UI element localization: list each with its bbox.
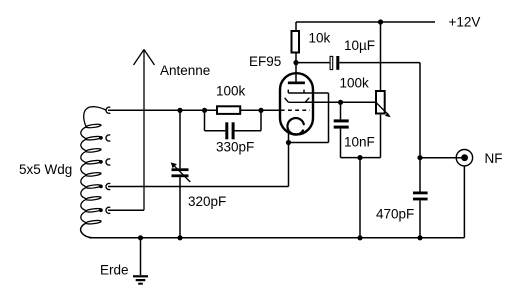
svg-text:10µF: 10µF: [344, 38, 375, 53]
inductor L1 left arc 3: [81, 151, 86, 163]
svg-text:330pF: 330pF: [216, 140, 254, 155]
node coil tap2: [99, 136, 103, 140]
svg-text:EF95: EF95: [249, 54, 281, 69]
node tank 320pF junction: [177, 108, 182, 113]
connector J1 NF jack: [456, 150, 472, 166]
coil tap2 hook: [106, 135, 110, 141]
wire +12V rail: [296, 22, 435, 30]
label NF: [485, 151, 503, 166]
coil tap4 hook: [106, 183, 110, 189]
wire NF sleeve to ground bus: [420, 166, 464, 238]
label 100k grid leak: [216, 84, 246, 99]
potentiometer P1 100k: [376, 91, 391, 117]
svg-text:NF: NF: [485, 151, 503, 166]
wire pot bottom lead: [380, 115, 382, 158]
svg-text:5x5 Wdg: 5x5 Wdg: [19, 162, 72, 177]
node cathode junction: [286, 140, 291, 145]
capacitor C3 10nF: [334, 119, 349, 128]
wire antenna to coil tap5: [108, 209, 144, 211]
inductor L1 winding 9: [86, 220, 101, 225]
inductor L1 top entry arc: [84, 107, 106, 127]
resistor R1 10k: [292, 31, 300, 53]
inductor L1 winding 7: [86, 196, 101, 201]
label 330pF: [216, 140, 254, 155]
svg-text:Antenne: Antenne: [160, 63, 210, 78]
antenna symbol: [134, 50, 155, 211]
capacitor C5 320pF variable: [171, 162, 191, 182]
coil tap5 hook: [106, 207, 110, 213]
wire 10nF bottom to pot bottom: [341, 157, 381, 159]
node coil tap3: [99, 160, 103, 164]
label 10uF: [344, 38, 375, 53]
label EF95: [249, 54, 281, 69]
inductor L1 left arc 4: [81, 163, 86, 175]
resistor R2 100k grid leak: [217, 106, 240, 114]
capacitor C4 470pF: [413, 192, 428, 201]
node 10nF-ground junction: [357, 155, 362, 160]
node rail-pot junction: [378, 19, 383, 24]
inductor L1 left arc 5: [81, 175, 86, 187]
label Erde: [100, 263, 129, 278]
svg-text:320pF: 320pF: [188, 194, 226, 209]
capacitor C1 10uF electrolytic: [330, 56, 339, 70]
inductor L1 winding 2 tap2: [86, 136, 101, 141]
coil tap3 hook: [106, 159, 110, 165]
node NF junction: [417, 155, 422, 160]
wire 320pF top lead: [179, 110, 181, 168]
inductor L1 winding 5: [86, 172, 101, 177]
ground symbol Erde: [133, 275, 148, 285]
wire 470pF bottom lead: [419, 200, 421, 237]
wire pot top lead: [380, 22, 382, 90]
inductor L1 left arc 1: [81, 127, 86, 139]
wire tap4 to cathode: [108, 143, 289, 187]
node grid RC right junction: [258, 108, 263, 113]
wire junction down to ground bus: [359, 158, 361, 238]
wire g3 to pot wiper line: [305, 101, 376, 103]
wire anode to 10uF: [296, 62, 330, 64]
node grid RC left junction: [202, 108, 207, 113]
label 100k pot: [340, 75, 370, 90]
label 10nF: [344, 135, 375, 150]
inductor L1 left arc 7: [81, 199, 86, 211]
wire 320pF bottom lead: [179, 177, 181, 238]
wire cathode lead: [288, 131, 290, 143]
wire g2 to cathode loop: [289, 93, 329, 143]
node ground bus 470pF: [417, 235, 422, 240]
inductor L1 left arc 6: [81, 187, 86, 199]
tube anode plate bar: [288, 82, 305, 85]
wire ground bus: [89, 237, 420, 239]
node ground bus erde: [138, 235, 143, 240]
wire right column top: [419, 63, 421, 192]
wire erde lead: [140, 238, 142, 275]
wire NF output: [420, 157, 463, 159]
inductor L1 bottom exit arc: [81, 223, 93, 238]
svg-text:+12V: +12V: [449, 14, 481, 29]
inductor L1 left arc 8: [81, 211, 86, 223]
inductor L1 winding 4 tap3: [86, 160, 101, 165]
wire 10uF to right column: [339, 62, 420, 64]
tube control grid g1 dashed: [281, 109, 310, 111]
node coil tap5: [99, 208, 103, 212]
capacitor C2 330pF: [225, 122, 234, 139]
node anode junction: [293, 60, 298, 65]
wire top tank: [108, 109, 280, 111]
svg-text:100k: 100k: [340, 75, 370, 90]
svg-text:10nF: 10nF: [344, 135, 375, 150]
inductor L1 winding 3: [86, 148, 101, 153]
svg-text:10k: 10k: [309, 31, 331, 46]
tube cathode: [287, 118, 303, 135]
svg-text:100k: 100k: [216, 84, 246, 99]
inductor L1 winding 6 tap4: [86, 184, 101, 189]
label Antenne: [160, 63, 210, 78]
node ground bus 320pF: [177, 235, 182, 240]
svg-text:470pF: 470pF: [376, 207, 414, 222]
wire anode lead: [295, 63, 297, 82]
label 10k: [309, 31, 331, 46]
wire 10nF top lead: [340, 102, 342, 119]
label 5x5 Wdg: [19, 162, 72, 177]
wire 10k bottom to anode node: [295, 53, 297, 63]
label +12V: [449, 14, 481, 29]
tube suppressor grid g3: [285, 98, 310, 103]
svg-text:Erde: Erde: [100, 263, 129, 278]
tube U1 EF95 envelope: [280, 73, 313, 134]
wire 330pF branch: [205, 110, 262, 130]
node ground bus 10nF branch: [357, 235, 362, 240]
label 470pF: [376, 207, 414, 222]
inductor L1 top terminal hook: [106, 107, 110, 113]
label 320pF: [188, 194, 226, 209]
tube screen grid g2: [288, 90, 328, 93]
inductor L1 winding 8 tap5: [86, 208, 101, 213]
inductor L1 left arc 2: [81, 139, 86, 151]
node coil tap4: [99, 185, 103, 189]
inductor L1 winding 1: [86, 124, 101, 129]
wire 10nF bottom lead: [340, 129, 342, 158]
node g3 line junction: [338, 100, 343, 105]
